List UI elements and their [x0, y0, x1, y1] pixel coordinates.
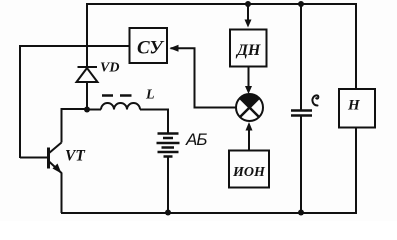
transistor VT	[49, 143, 62, 174]
svg-text:СУ: СУ	[137, 38, 164, 59]
svg-text:L: L	[145, 88, 155, 103]
node top bus / DN	[245, 1, 251, 7]
battery AB	[157, 134, 180, 214]
svg-text:ИОН: ИОН	[232, 165, 266, 180]
mixer (comparison element)	[236, 94, 263, 121]
wire right branch upper	[355, 3, 357, 89]
wire base from left	[20, 157, 47, 159]
wire SU output to base	[20, 46, 129, 158]
svg-text:VT: VT	[65, 148, 85, 165]
wire DN to mixer with arrow	[248, 67, 250, 88]
wire capacitor branch lower	[300, 116, 302, 213]
box SU	[130, 28, 168, 63]
node top bus / capacitor	[298, 1, 304, 7]
node bottom bus / battery	[165, 210, 171, 216]
label C	[312, 95, 318, 105]
capacitor C	[291, 111, 312, 116]
wire junction to collector	[62, 109, 88, 143]
inductor L	[87, 96, 168, 134]
box N load	[339, 89, 375, 128]
wire ION to mixer with arrow	[248, 128, 250, 151]
wire bottom bus	[61, 212, 356, 214]
node A junction diode/inductor/collector	[84, 107, 90, 113]
diode VD	[77, 67, 98, 110]
wire diode branch vertical	[86, 3, 88, 67]
wire capacitor branch upper	[300, 4, 302, 110]
svg-text:VD: VD	[100, 61, 119, 76]
box ION	[229, 151, 269, 188]
node bottom bus / capacitor	[298, 210, 304, 216]
wire emitter down to bottom bus	[61, 173, 63, 214]
box DN	[230, 30, 267, 67]
wire top bus	[87, 3, 356, 5]
wire mixer to SU input	[171, 48, 238, 107]
svg-text:Н: Н	[347, 98, 361, 114]
wire top bus to DN with arrow	[247, 4, 249, 21]
wire right branch lower	[355, 128, 357, 215]
svg-text:АБ: АБ	[185, 130, 207, 149]
svg-text:ДН: ДН	[235, 42, 261, 59]
